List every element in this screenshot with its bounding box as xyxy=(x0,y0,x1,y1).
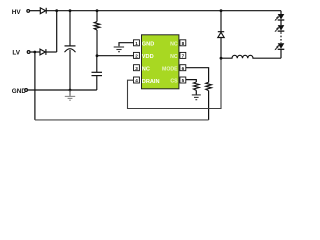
wire DRAIN pin route xyxy=(128,58,222,108)
wire VDD junction to pin 2 xyxy=(97,55,134,57)
svg-text:5: 5 xyxy=(182,78,185,83)
IC pin labels left xyxy=(142,42,160,85)
svg-text:7: 7 xyxy=(182,54,185,59)
svg-text:GND: GND xyxy=(12,88,27,95)
svg-text:LV: LV xyxy=(12,50,20,57)
pin box 8 xyxy=(180,40,186,46)
node junction drain/inductor xyxy=(220,57,223,60)
svg-text:DRAIN: DRAIN xyxy=(142,79,160,85)
wire R2 to bottom rail xyxy=(208,91,210,120)
svg-text:GND: GND xyxy=(142,42,154,48)
svg-text:CS: CS xyxy=(170,79,178,85)
pin box 7 xyxy=(180,52,186,58)
LED D5 xyxy=(275,25,285,32)
wire R3 to ground xyxy=(195,90,197,94)
terminal HV xyxy=(27,10,30,13)
node junction rail/R1 xyxy=(96,9,99,12)
resistor R3 (CS) xyxy=(194,82,200,90)
wire MODE pin to R2 xyxy=(186,68,209,83)
wire rail corner to LED chain xyxy=(280,11,282,15)
LED D4 xyxy=(275,14,285,25)
svg-text:NC: NC xyxy=(170,54,178,60)
wire HV to D1 xyxy=(30,10,40,12)
terminal LV xyxy=(27,51,30,54)
wire D2 to tie xyxy=(46,51,57,53)
svg-text:NC: NC xyxy=(142,67,150,73)
node junction VDD xyxy=(96,54,99,57)
ground symbol at R3 xyxy=(192,95,201,100)
IC pin labels right xyxy=(162,42,178,85)
svg-text:1: 1 xyxy=(135,41,138,46)
svg-text:8: 8 xyxy=(182,41,185,46)
node junction rail/C1 xyxy=(69,9,72,12)
resistor R1 xyxy=(94,11,100,56)
node junction GND/C1 xyxy=(69,89,72,92)
IC U1 body xyxy=(142,35,179,89)
node junction rail/LV-tie xyxy=(55,9,58,12)
pin box 4 xyxy=(134,77,140,83)
pin box 1 xyxy=(134,40,140,46)
svg-text:NC: NC xyxy=(170,42,178,48)
wire GND line xyxy=(28,89,97,91)
svg-text:2: 2 xyxy=(135,54,138,59)
resistor R2 (MODE) xyxy=(206,82,212,90)
wire dotted LED continuation xyxy=(280,32,282,43)
wire bottom rail xyxy=(35,119,209,121)
ground symbol below C1 xyxy=(65,90,75,100)
terminal GND xyxy=(25,89,28,92)
pin box 2 xyxy=(134,52,140,58)
wire CS pin to R3 xyxy=(186,80,197,82)
pin box 5 xyxy=(180,77,186,83)
wire LV to junction xyxy=(31,51,41,53)
svg-text:HV: HV xyxy=(12,9,22,16)
node junction rail/D3 xyxy=(220,9,223,12)
svg-text:3: 3 xyxy=(135,66,138,71)
wire tie HV rail to LV diode xyxy=(56,11,58,52)
capacitor C2 xyxy=(92,56,103,90)
pin box 3 xyxy=(134,65,140,71)
ground symbol at pin 1 xyxy=(114,47,124,52)
node junction LV xyxy=(33,51,36,54)
wire top rail xyxy=(46,10,281,12)
diode D2 xyxy=(40,49,46,55)
svg-text:4: 4 xyxy=(135,78,138,83)
svg-text:MODE: MODE xyxy=(162,66,178,72)
diode D3 freewheel xyxy=(218,11,224,59)
diode D1 xyxy=(40,8,46,14)
pin box 6 xyxy=(180,65,186,71)
capacitor C1 (electrolytic) xyxy=(65,11,76,90)
wire LV junction down to bottom rail xyxy=(34,52,36,120)
svg-text:VDD: VDD xyxy=(142,54,154,60)
svg-text:6: 6 xyxy=(182,66,185,71)
inductor L1 xyxy=(221,55,281,58)
LED D6 xyxy=(275,43,285,58)
wire pin1 to ground xyxy=(119,43,134,47)
